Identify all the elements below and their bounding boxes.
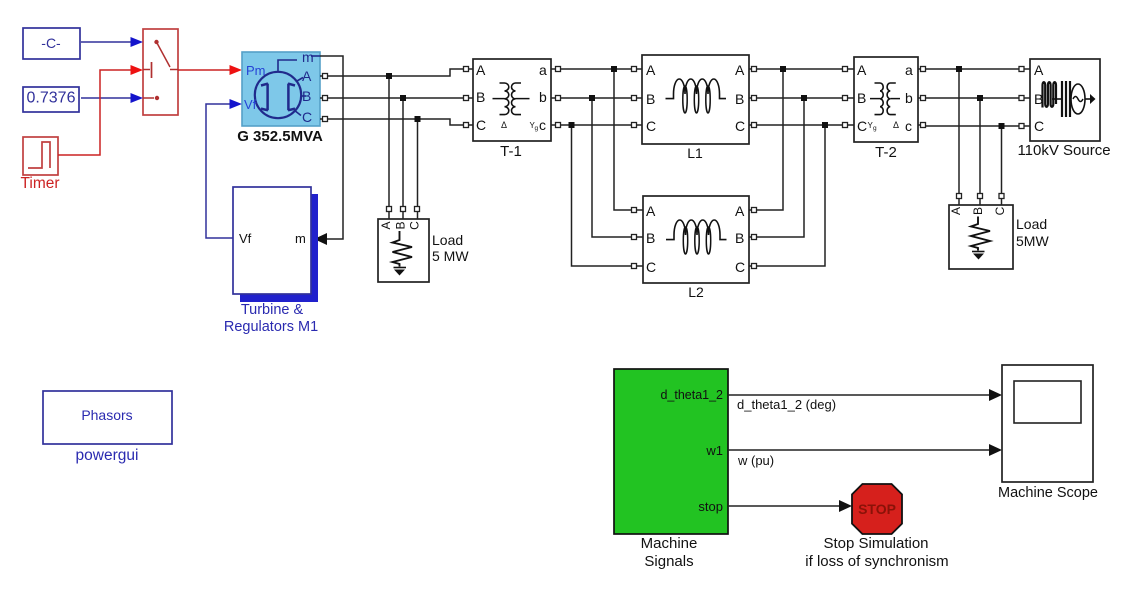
svg-text:STOP: STOP	[858, 501, 896, 517]
svg-text:w1: w1	[705, 443, 723, 458]
svg-text:B: B	[646, 91, 655, 107]
wire T-1 a to L1 A with tap to L2 A	[561, 66, 632, 210]
svg-text:C: C	[302, 109, 312, 125]
svg-text:b: b	[905, 90, 913, 106]
svg-text:A: A	[646, 203, 656, 219]
right Load 5MW block	[949, 194, 1049, 270]
svg-text:C: C	[1034, 118, 1044, 134]
L1 port squares	[632, 67, 757, 128]
svg-text:B: B	[476, 89, 485, 105]
svg-text:Signals: Signals	[644, 553, 693, 570]
svg-text:C: C	[993, 206, 1007, 215]
STOP block	[805, 484, 948, 570]
T-1 transformer block	[473, 59, 551, 160]
svg-text:B: B	[971, 207, 985, 215]
svg-text:-C-: -C-	[41, 35, 61, 51]
wire phase B : G to T-1	[328, 95, 463, 101]
svg-text:Regulators M1: Regulators M1	[224, 319, 318, 335]
svg-text:a: a	[905, 62, 913, 78]
svg-text:A: A	[646, 62, 656, 78]
svg-text:B: B	[302, 88, 311, 104]
svg-text:C: C	[735, 118, 745, 134]
svg-text:C: C	[646, 259, 656, 275]
svg-text:0.7376: 0.7376	[27, 90, 76, 107]
Turbine and Regulators block shadow	[240, 194, 318, 302]
svg-text:Vf: Vf	[244, 97, 257, 112]
powergui block	[43, 391, 172, 464]
wire m output to Turbine m input	[314, 56, 343, 245]
switch block	[143, 29, 178, 115]
svg-text:stop: stop	[698, 499, 723, 514]
svg-text:c: c	[539, 117, 546, 133]
svg-text:Machine: Machine	[641, 535, 698, 552]
svg-text:C: C	[735, 259, 745, 275]
svg-text:C: C	[646, 118, 656, 134]
svg-text:110kV Source: 110kV Source	[1017, 142, 1110, 159]
svg-text:T-2: T-2	[875, 144, 897, 161]
svg-text:C: C	[408, 221, 422, 230]
svg-text:A: A	[476, 62, 486, 78]
svg-text:5 MW: 5 MW	[432, 248, 469, 264]
L1 series inductance block	[642, 55, 749, 161]
svg-text:g: g	[873, 125, 877, 132]
svg-text:Turbine &: Turbine &	[241, 302, 304, 318]
T-2 port squares	[843, 67, 926, 128]
Source port squares	[1019, 67, 1030, 129]
svg-text:B: B	[735, 230, 744, 246]
constant block 0.7376	[23, 87, 79, 112]
svg-text:m: m	[302, 49, 314, 65]
svg-text:Machine Scope: Machine Scope	[998, 485, 1098, 501]
wire d_theta1_2 to Machine Scope	[728, 389, 1002, 412]
svg-text:C: C	[476, 117, 486, 133]
branch wires down to left Load	[387, 79, 420, 219]
wire L1 C to T-2 C with riser from L2 C	[757, 122, 843, 266]
Machine Scope block	[998, 365, 1098, 501]
svg-text:A: A	[302, 68, 312, 84]
wire T-2 a to Source A with tap to right Load	[926, 66, 1020, 194]
svg-text:L2: L2	[688, 284, 704, 300]
wire 0.7376 to switch	[81, 93, 143, 103]
svg-text:A: A	[379, 221, 393, 229]
svg-text:a: a	[539, 62, 547, 78]
wire phase A : G to T-1	[328, 69, 463, 79]
svg-text:g: g	[535, 125, 539, 132]
T-2 transformer block	[854, 57, 918, 161]
svg-text:A: A	[735, 203, 745, 219]
svg-text:powergui: powergui	[76, 447, 139, 464]
svg-text:A: A	[857, 62, 867, 78]
svg-text:Phasors: Phasors	[81, 407, 132, 423]
wire phase C : G to T-1	[328, 116, 463, 125]
wire Turbine Vf output to G Vf input	[206, 99, 242, 238]
wire switch to G Pm	[178, 65, 242, 75]
110kV Source block	[1017, 59, 1110, 159]
wire -C- to switch	[81, 37, 143, 47]
wire stop to STOP block	[728, 500, 852, 512]
svg-text:Load: Load	[432, 232, 463, 248]
svg-text:Timer: Timer	[20, 175, 59, 192]
svg-text:Δ: Δ	[501, 120, 507, 130]
svg-text:Pm: Pm	[246, 63, 266, 78]
svg-text:A: A	[735, 62, 745, 78]
svg-text:A: A	[949, 207, 963, 215]
svg-text:A: A	[1034, 62, 1044, 78]
svg-text:T-1: T-1	[500, 143, 522, 160]
svg-text:Load: Load	[1016, 216, 1047, 232]
svg-text:B: B	[735, 91, 744, 107]
svg-text:if loss of synchronism: if loss of synchronism	[805, 553, 948, 570]
L2 port squares	[632, 208, 757, 269]
svg-text:B: B	[857, 90, 866, 106]
svg-text:d_theta1_2: d_theta1_2	[660, 388, 723, 402]
svg-text:C: C	[857, 118, 867, 134]
svg-text:G 352.5MVA: G 352.5MVA	[237, 128, 323, 145]
svg-text:B: B	[394, 221, 408, 229]
synchronous machine block G	[237, 49, 323, 145]
Turbine and Regulators block	[224, 187, 318, 335]
svg-text:m: m	[295, 231, 306, 246]
svg-text:Vf: Vf	[239, 231, 252, 246]
constant block -C-	[23, 28, 80, 59]
svg-text:d_theta1_2 (deg): d_theta1_2 (deg)	[737, 397, 836, 412]
wire T-1 b to L1 B with tap to L2 B	[561, 95, 632, 237]
block Timer	[20, 137, 59, 192]
wire Timer to switch	[58, 65, 143, 155]
T-1 port squares	[464, 67, 561, 128]
svg-text:B: B	[646, 230, 655, 246]
Machine Signals block	[614, 369, 728, 570]
wire w1 to Machine Scope	[728, 444, 1002, 468]
svg-text:w (pu): w (pu)	[737, 453, 774, 468]
wire L1 B to T-2 B with riser from L2 B	[757, 95, 843, 237]
svg-text:c: c	[905, 118, 912, 134]
svg-text:Stop Simulation: Stop Simulation	[823, 535, 928, 552]
wire T-1 c to L1 C with tap to L2 C	[561, 122, 632, 266]
svg-text:Δ: Δ	[893, 120, 899, 130]
G output port squares	[320, 74, 328, 122]
svg-text:b: b	[539, 89, 547, 105]
wire T-2 b to Source B with tap to right Load	[926, 95, 1020, 194]
left Load 5 MW block	[378, 219, 469, 282]
wire T-2 c to Source C with tap to right Load	[926, 123, 1020, 194]
svg-text:5MW: 5MW	[1016, 233, 1049, 249]
svg-text:L1: L1	[687, 145, 703, 161]
L2 series inductance block	[643, 196, 749, 300]
wire L1 A to T-2 A with riser from L2 A	[757, 66, 843, 210]
